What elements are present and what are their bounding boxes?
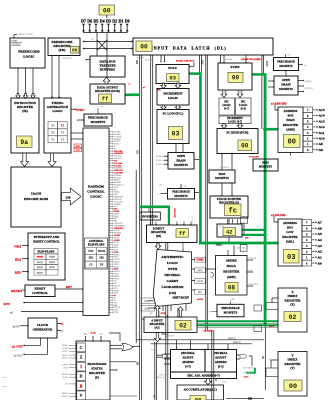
svg-text:ADJUST: ADJUST — [182, 356, 193, 360]
svg-text:MOSFETS: MOSFETS — [279, 65, 293, 68]
svg-text:03: 03 — [170, 75, 176, 81]
svg-text:RDY: RDY — [75, 146, 80, 148]
svg-text:PC LOW (PCL): PC LOW (PCL) — [163, 111, 184, 115]
svg-text:ADJUST: ADJUST — [215, 356, 226, 360]
svg-text:DB: DB — [136, 150, 139, 154]
svg-text:RDY: RDY — [66, 286, 72, 289]
svg-text:ff: ff — [179, 230, 186, 237]
svg-text:(IR): (IR) — [22, 109, 28, 113]
svg-text:SHIFT RIGHT: SHIFT RIGHT — [172, 297, 189, 300]
svg-text:ARITHMETIC: ARITHMETIC — [161, 255, 184, 259]
svg-text:NOCR: NOCR — [98, 250, 106, 253]
svg-text:PRECHARGE: PRECHARGE — [221, 306, 239, 310]
svg-text:LOGIC: LOGIC — [167, 261, 179, 265]
svg-text:D5: D5 — [94, 19, 99, 24]
svg-text:AVR/V: AVR/V — [62, 395, 69, 398]
svg-text:DSA: DSA — [145, 307, 150, 310]
svg-text:DECIMAL: DECIMAL — [164, 273, 181, 277]
svg-text:OPEN: OPEN — [282, 78, 291, 82]
svg-text:HC: HC — [198, 291, 202, 294]
svg-text:IR5/I: IR5/I — [63, 367, 68, 369]
svg-text:D2: D2 — [112, 19, 117, 24]
svg-text:D7: D7 — [81, 19, 86, 24]
svg-text:BUFFERS: BUFFERS — [100, 68, 115, 72]
svg-text:00: 00 — [288, 139, 296, 147]
svg-text:HOLD: HOLD — [227, 264, 237, 268]
svg-text:INTERRUPT AND: INTERRUPT AND — [34, 235, 60, 239]
svg-text:0/RDY + SYNC: 0/RDY + SYNC — [18, 34, 34, 36]
svg-text:φ2(DB): φ2(DB) — [305, 80, 312, 83]
svg-text:B: B — [80, 384, 83, 388]
svg-text:21x130: 21x130 — [31, 192, 42, 196]
svg-text:0/ADL0: 0/ADL0 — [156, 155, 163, 158]
svg-text:OPEN: OPEN — [177, 154, 186, 158]
svg-text:CARRY: CARRY — [167, 279, 179, 283]
svg-text:CONTROL: CONTROL — [87, 190, 105, 194]
svg-text:RESP: RESP — [37, 266, 44, 269]
svg-text:R/W: R/W — [4, 302, 11, 306]
svg-text:φ1: φ1 — [143, 87, 145, 89]
svg-text:03: 03 — [172, 130, 180, 137]
svg-text:DB6/V: DB6/V — [62, 393, 69, 395]
svg-text:PASS: PASS — [219, 172, 226, 176]
svg-text:DAA φ2: DAA φ2 — [151, 348, 158, 351]
svg-text:DB3/D: DB3/D — [62, 374, 69, 376]
svg-text:0/ADD: 0/ADD — [197, 298, 204, 301]
svg-text:00: 00 — [103, 7, 111, 14]
svg-text:ADDERS: ADDERS — [215, 360, 227, 364]
svg-text:02: 02 — [179, 322, 187, 329]
svg-text:REGISTER: REGISTER — [223, 270, 240, 274]
svg-text:SYNC(?): SYNC(?) — [305, 87, 313, 90]
svg-text:SB5: SB5 — [245, 238, 249, 240]
svg-text:+5V: +5V — [100, 107, 104, 109]
svg-text:DSA-H(?): DSA-H(?) — [243, 371, 252, 374]
svg-text:REGISTER (DOR): REGISTER (DOR) — [95, 89, 120, 93]
svg-text:SB/ADH: SB/ADH — [204, 330, 213, 333]
svg-text:(BI): (BI) — [156, 234, 161, 238]
svg-text:DECIMAL: DECIMAL — [214, 351, 228, 355]
svg-text:LOGIC: LOGIC — [52, 109, 62, 113]
svg-text:FLIP-FLOPS: FLIP-FLOPS — [38, 250, 55, 254]
svg-text:IRQ: IRQ — [15, 257, 22, 261]
svg-text:SB(0-7): SB(0-7) — [228, 337, 236, 340]
svg-text:SB: SB — [262, 356, 265, 359]
svg-text:NMIP: NMIP — [49, 261, 56, 264]
svg-text:ADH: ADH — [266, 61, 269, 67]
svg-text:A13: A13 — [319, 119, 325, 123]
svg-text:SBC: SBC — [157, 89, 162, 91]
svg-text:vss →: vss → — [3, 377, 9, 379]
svg-text:MOSFETS: MOSFETS — [91, 120, 106, 124]
svg-text:φ2: φ2 — [304, 65, 306, 67]
svg-text:PCLS: PCLS — [168, 66, 177, 70]
svg-text:INPUT DATA LATCH (DL): INPUT DATA LATCH (DL) — [151, 46, 227, 51]
svg-text:SYNC: SYNC — [76, 108, 84, 112]
svg-text:A15: A15 — [319, 108, 325, 112]
svg-text:Z: Z — [80, 356, 83, 360]
svg-text:DAA: DAA — [244, 376, 249, 379]
svg-text:REGISTER: REGISTER — [89, 371, 106, 375]
svg-text:+5V: +5V — [231, 299, 235, 301]
svg-text:REGISTER: REGISTER — [282, 235, 298, 239]
svg-text:DAA-H(0-3): DAA-H(0-3) — [243, 367, 254, 370]
svg-text:MOSFETS: MOSFETS — [174, 163, 188, 167]
svg-text:V: V — [80, 394, 83, 398]
svg-text:CONTROL: CONTROL — [12, 45, 22, 47]
svg-text:DB: DB — [136, 361, 139, 365]
svg-text:ACCUMULATOR (AC): ACCUMULATOR (AC) — [184, 387, 217, 391]
svg-text:φ2 OUT: φ2 OUT — [14, 355, 24, 358]
svg-text:DB1/Z: DB1/Z — [62, 355, 69, 357]
svg-text:(PD): (PD) — [59, 48, 66, 52]
svg-text:STATUS: STATUS — [91, 367, 103, 371]
svg-text:PCHS: PCHS — [231, 65, 240, 69]
svg-text:FLIP-FLOPS: FLIP-FLOPS — [88, 242, 105, 246]
svg-text:SB/X: SB/X — [269, 326, 274, 328]
svg-text:DL/ADL: DL/ADL — [145, 59, 154, 62]
svg-text:A8: A8 — [319, 148, 324, 152]
svg-text:1/AC: 1/AC — [222, 381, 227, 384]
svg-text:INCREMENT: INCREMENT — [163, 92, 183, 96]
svg-text:NMIG: NMIG — [37, 256, 44, 259]
svg-text:HIGH: HIGH — [286, 118, 295, 122]
svg-text:00: 00 — [232, 75, 240, 82]
svg-text:DB/ADD: DB/ADD — [174, 208, 177, 217]
svg-text:A0: A0 — [318, 261, 323, 265]
svg-text:DBZ/Z: DBZ/Z — [62, 358, 69, 360]
svg-text:PROCESSOR: PROCESSOR — [88, 362, 108, 366]
svg-text:BUS: BUS — [287, 226, 293, 230]
svg-text:RES: RES — [15, 270, 21, 274]
svg-text:A9: A9 — [319, 142, 324, 146]
svg-text:ADL: ADL — [216, 242, 223, 246]
svg-text:C/?: C/? — [99, 334, 102, 336]
svg-text:vcc →: vcc → — [3, 386, 9, 388]
svg-text:BUS: BUS — [288, 114, 294, 118]
svg-text:CLOCK: CLOCK — [37, 323, 49, 327]
svg-text:PCH/ADH: PCH/ADH — [249, 156, 259, 159]
svg-text:MOSFETS: MOSFETS — [215, 176, 229, 180]
svg-text:D4: D4 — [100, 19, 105, 24]
svg-text:IRQP: IRQP — [37, 261, 44, 264]
svg-text:LOOKAHEAD: LOOKAHEAD — [161, 285, 184, 289]
svg-text:READY: READY — [11, 289, 23, 293]
svg-text:DB: DB — [136, 60, 139, 64]
svg-text:0/ADL2: 0/ADL2 — [156, 163, 163, 166]
svg-text:φ1: φ1 — [207, 311, 209, 313]
svg-text:DL/ADH: DL/ADH — [224, 58, 233, 61]
svg-text:NMI: NMI — [14, 244, 21, 248]
svg-text:RANDOM: RANDOM — [88, 185, 105, 189]
svg-text:A14: A14 — [319, 114, 325, 118]
svg-text:RESET CONTROL: RESET CONTROL — [33, 240, 60, 244]
svg-text:(P): (P) — [95, 376, 99, 380]
svg-text:A4: A4 — [318, 238, 323, 242]
svg-text:φ1 OUT: φ1 OUT — [12, 345, 24, 349]
svg-text:SB: SB — [248, 397, 253, 400]
svg-text:fc: fc — [229, 207, 237, 215]
svg-text:DRAIN: DRAIN — [176, 159, 186, 163]
svg-text:PASS: PASS — [262, 161, 269, 164]
svg-text:03: 03 — [287, 254, 295, 262]
svg-text:φ1: φ1 — [77, 120, 79, 122]
svg-text:D1: D1 — [118, 19, 123, 24]
svg-text:ADL: ADL — [202, 59, 205, 65]
svg-text:ADDRESS: ADDRESS — [283, 221, 297, 225]
svg-text:LOGIC (0-7): LOGIC (0-7) — [228, 120, 242, 123]
svg-text:A6: A6 — [318, 226, 323, 230]
svg-text:VMII: VMII — [49, 256, 55, 259]
svg-text:IR5/C: IR5/C — [63, 348, 69, 350]
svg-text:MOSFETS: MOSFETS — [174, 195, 188, 198]
svg-text:DAA: DAA — [144, 300, 150, 303]
svg-text:ADD/ADL: ADD/ADL — [236, 247, 246, 250]
svg-text:AVR: AVR — [161, 312, 166, 315]
svg-text:SUMS: SUMS — [196, 259, 204, 262]
svg-text:MOSFETS: MOSFETS — [259, 166, 273, 169]
svg-text:DY: DY — [100, 264, 104, 267]
svg-text:DEC. ADJ. ADDERS (0-7): DEC. ADJ. ADDERS (0-7) — [187, 374, 219, 378]
svg-text:SB1: SB1 — [89, 257, 94, 260]
svg-text:ADDERS: ADDERS — [182, 360, 194, 364]
svg-text:(AI): (AI) — [154, 325, 159, 329]
svg-text:ADDRESS: ADDRESS — [284, 109, 298, 113]
svg-text:(X): (X) — [290, 303, 294, 307]
svg-text:ADDER: ADDER — [226, 259, 238, 263]
svg-text:A5: A5 — [318, 232, 323, 236]
svg-text:ADH/PCH·0/ADH: ADH/PCH·0/ADH — [241, 58, 261, 61]
svg-text:(ABL): (ABL) — [286, 239, 294, 243]
svg-text:LOW: LOW — [286, 230, 293, 234]
svg-text:(ABH): (ABH) — [286, 127, 294, 131]
svg-text:(0-6): (0-6) — [249, 269, 253, 272]
svg-text:00: 00 — [241, 142, 249, 149]
svg-text:SB2: SB2 — [99, 257, 104, 260]
svg-text:00: 00 — [72, 48, 78, 53]
svg-text:(4-7): (4-7) — [224, 108, 229, 111]
svg-text:LOGIC: LOGIC — [168, 96, 178, 100]
svg-text:RESG: RESG — [37, 272, 44, 275]
svg-text:D3: D3 — [106, 19, 111, 24]
svg-text:DB: DB — [154, 394, 156, 398]
svg-text:INVERTERS: INVERTERS — [142, 216, 158, 219]
svg-text:D: D — [80, 375, 83, 379]
svg-text:(8): (8) — [91, 38, 94, 41]
svg-text:A1: A1 — [318, 255, 323, 259]
svg-text:PRECHARGE: PRECHARGE — [277, 60, 295, 63]
svg-text:MOSFETS: MOSFETS — [279, 87, 293, 91]
svg-text:00: 00 — [289, 383, 297, 391]
svg-text:D6: D6 — [87, 19, 92, 24]
svg-text:ACR: ACR — [90, 332, 95, 335]
svg-text:SB: SB — [208, 388, 211, 391]
svg-text:(0-3): (0-3) — [218, 365, 224, 369]
svg-text:DAA-H(4): DAA-H(4) — [159, 374, 168, 377]
svg-text:(?): (?) — [150, 312, 153, 315]
svg-text:(ADD): (ADD) — [227, 275, 236, 279]
svg-text:A11: A11 — [319, 131, 325, 135]
svg-text:ACR: ACR — [197, 280, 203, 283]
svg-text:AVR: AVR — [197, 269, 202, 272]
svg-text:A10: A10 — [319, 137, 325, 141]
svg-text:IR5: IR5 — [84, 334, 87, 336]
svg-text:00: 00 — [140, 43, 148, 50]
svg-text:(CD): (CD) — [169, 291, 176, 295]
svg-text:INTG: INTG — [114, 312, 119, 314]
svg-text:9a: 9a — [20, 139, 28, 146]
svg-text:1/ADD: 1/ADD — [168, 335, 175, 338]
svg-text:1/B: 1/B — [65, 384, 69, 386]
svg-text:+5V: +5V — [287, 55, 291, 57]
svg-text:φ1-ADH/ABH: φ1-ADH/ABH — [271, 103, 286, 106]
svg-text:ACR/C: ACR/C — [61, 350, 68, 353]
svg-text:0/ADL·ADL/PCL: 0/ADL·ADL/PCL — [176, 59, 195, 62]
svg-text:DECIMAL: DECIMAL — [181, 351, 195, 355]
svg-text:INTG: INTG — [49, 266, 55, 269]
svg-text:φ1-ADL/ABL: φ1-ADL/ABL — [271, 214, 286, 217]
svg-text:MOSFETS: MOSFETS — [224, 310, 238, 314]
svg-text:0/ADL1: 0/ADL1 — [156, 159, 163, 162]
svg-text:WITH: WITH — [168, 267, 178, 271]
svg-text:130: 130 — [65, 195, 70, 199]
svg-text:A7: A7 — [318, 221, 323, 225]
svg-text:φ1: φ1 — [128, 83, 130, 85]
svg-text:LOGIC: LOGIC — [90, 195, 102, 199]
svg-text:LOGIC: LOGIC — [23, 55, 35, 59]
svg-text:DECODE ROM: DECODE ROM — [24, 197, 49, 201]
svg-text:(Y): (Y) — [290, 366, 294, 370]
svg-text:A2: A2 — [318, 250, 323, 254]
svg-text:DB2/I: DB2/I — [63, 364, 69, 366]
svg-text:CONTROL: CONTROL — [32, 291, 48, 295]
svg-text:ff: ff — [102, 95, 109, 102]
svg-text:φ0 IN: φ0 IN — [13, 326, 19, 329]
svg-text:A12: A12 — [319, 125, 325, 129]
svg-text:PREDECODE: PREDECODE — [18, 50, 40, 54]
svg-text:(0-3): (0-3) — [241, 108, 246, 111]
svg-text:PRECHARGE: PRECHARGE — [172, 191, 190, 194]
svg-text:φ2 SADH: φ2 SADH — [220, 166, 229, 169]
svg-text:(4-7): (4-7) — [185, 365, 191, 369]
svg-text:ADD/SB(7): ADD/SB(7) — [249, 283, 259, 286]
svg-text:DRAIN: DRAIN — [281, 83, 291, 87]
svg-text:PC HIGH (PCH): PC HIGH (PCH) — [227, 130, 249, 134]
svg-text:+5V: +5V — [183, 185, 187, 187]
svg-text:DB0/C: DB0/C — [62, 345, 69, 347]
svg-text:A3: A3 — [318, 244, 323, 248]
svg-text:POS: POS — [88, 250, 93, 253]
svg-text:C: C — [80, 346, 83, 350]
svg-text:φ1: φ1 — [157, 194, 159, 196]
svg-text:S/ADL: S/ADL — [219, 225, 225, 228]
svg-text:REGISTER: REGISTER — [283, 123, 299, 127]
svg-text:08: 08 — [228, 284, 236, 291]
svg-text:D0: D0 — [125, 19, 130, 24]
svg-text:SB(0-3): SB(0-3) — [233, 341, 241, 344]
svg-text:ADD/SB: ADD/SB — [249, 257, 257, 260]
svg-text:02: 02 — [289, 314, 297, 321]
svg-text:42: 42 — [226, 230, 232, 236]
svg-text:IR5/D: IR5/D — [63, 377, 69, 379]
svg-text:GENERATOR: GENERATOR — [33, 328, 53, 332]
svg-text:SB/ADD: SB/ADD — [191, 216, 194, 224]
svg-text:DL(0-7): DL(0-7) — [137, 57, 145, 60]
svg-text:T1X: T1X — [76, 150, 80, 152]
svg-text:PD0 (0-7): PD0 (0-7) — [63, 57, 72, 60]
